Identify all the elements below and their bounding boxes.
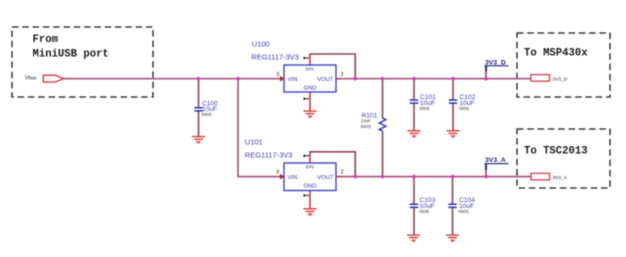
svg-text:0805: 0805 — [201, 112, 212, 117]
svg-text:0805: 0805 — [458, 209, 469, 214]
svg-text:3: 3 — [276, 72, 279, 78]
svg-text:REG1117-3V3: REG1117-3V3 — [251, 53, 299, 62]
svg-text:U100: U100 — [252, 39, 270, 48]
svg-text:GND: GND — [303, 86, 316, 92]
svg-text:3V3_D: 3V3_D — [553, 76, 568, 82]
svg-text:0805: 0805 — [420, 106, 431, 111]
svg-text:To TSC2013: To TSC2013 — [524, 145, 588, 157]
svg-text:2: 2 — [341, 170, 344, 176]
svg-text:VOUT: VOUT — [317, 77, 334, 83]
svg-text:VIN: VIN — [288, 77, 298, 83]
svg-text:MiniUSB port: MiniUSB port — [33, 48, 109, 60]
svg-text:From: From — [33, 34, 58, 46]
svg-text:U101: U101 — [245, 138, 263, 147]
svg-text:To MSP430x: To MSP430x — [524, 47, 588, 59]
svg-text:0603: 0603 — [361, 124, 372, 129]
svg-text:3: 3 — [276, 170, 279, 176]
svg-text:VIN: VIN — [288, 175, 298, 181]
svg-text:REG1117-3V3: REG1117-3V3 — [245, 151, 293, 160]
svg-text:VOUT: VOUT — [317, 175, 334, 181]
svg-text:BPK: BPK — [306, 165, 315, 170]
svg-text:0805: 0805 — [459, 106, 470, 111]
svg-text:DNP: DNP — [361, 118, 371, 123]
svg-text:Vbus: Vbus — [25, 76, 37, 82]
svg-text:BPK: BPK — [306, 67, 315, 72]
svg-text:2: 2 — [341, 72, 344, 78]
svg-text:0805: 0805 — [419, 209, 430, 214]
svg-text:3V3_A: 3V3_A — [553, 175, 568, 181]
svg-text:GND: GND — [303, 184, 316, 190]
